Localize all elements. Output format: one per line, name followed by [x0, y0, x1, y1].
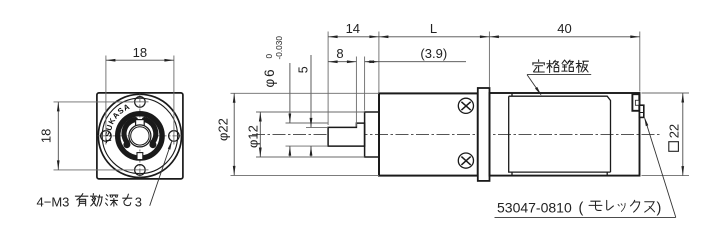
extension line motor flange	[488, 32, 490, 88]
svg-text:0: 0	[264, 54, 274, 59]
dimension phi12	[256, 111, 365, 113]
dimension phi6 with tolerance	[286, 122, 329, 124]
label rating nameplate (teikaku meiban)	[533, 60, 545, 72]
rating nameplate wrap	[509, 93, 611, 175]
M3 mounting hole W	[101, 131, 112, 142]
shaft bore inner circle	[131, 127, 149, 145]
extension line boss face	[364, 57, 366, 111]
phi12 pilot boss	[365, 112, 379, 157]
output shaft with D-cut flat	[328, 123, 365, 146]
gearhead assembly screw (top)	[458, 98, 473, 113]
extension line gearhead face	[378, 32, 380, 93]
gearhead assembly screw (bottom)	[458, 153, 473, 168]
svg-text:8: 8	[336, 46, 343, 61]
gearhead housing body	[379, 93, 478, 175]
extension line motor rear	[639, 32, 641, 92]
svg-text:53047-0810: 53047-0810	[497, 200, 572, 216]
dimension 18 (top, hole spacing)	[105, 56, 107, 134]
motor connector housing	[632, 94, 639, 111]
hub left lower lobe	[124, 142, 130, 148]
dimension L	[379, 36, 490, 38]
M3 mounting hole N	[135, 97, 146, 108]
hub right wing slot	[144, 120, 155, 143]
svg-text:(: (	[579, 201, 584, 217]
front view vertical centerline	[139, 94, 141, 179]
dimension 14	[328, 36, 379, 38]
extension line shaft tip	[327, 32, 329, 126]
svg-text:L: L	[430, 21, 437, 36]
svg-text:φ6: φ6	[262, 67, 277, 87]
connector latch protrusion	[640, 105, 644, 117]
dimension square-22	[642, 92, 690, 94]
front view gearhead inner circle	[102, 98, 177, 173]
M3 mounting hole E	[169, 131, 180, 142]
dimension 8	[328, 61, 356, 63]
svg-text:14: 14	[346, 21, 360, 36]
svg-text:4−M3: 4−M3	[37, 195, 70, 210]
svg-text:3: 3	[135, 195, 142, 210]
connector notch	[635, 100, 639, 105]
dimension phi22	[231, 92, 380, 94]
front view gearhead outer circle	[98, 94, 181, 177]
hub right lower lobe	[150, 142, 156, 148]
shaft bore outer circle	[129, 125, 151, 147]
dimension 40	[489, 36, 639, 38]
motor front flange ring	[478, 88, 490, 181]
extension line D-cut end	[355, 57, 357, 127]
svg-text:22: 22	[666, 124, 681, 138]
dimension 18 (left, hole spacing)	[54, 101, 134, 103]
motor case body	[490, 93, 640, 176]
dimension 5 (D-cut height)	[306, 126, 328, 128]
M3 mounting hole S	[135, 165, 146, 176]
hub top keyway tab	[136, 120, 145, 127]
output hub thick ring	[118, 114, 162, 158]
leader 4-M3 tapped holes	[150, 142, 172, 206]
side view main centerline	[252, 134, 662, 136]
hub bottom notch	[137, 153, 143, 160]
dimension (3.9)	[365, 61, 379, 63]
svg-text:φ22: φ22	[215, 118, 230, 141]
front view horizontal centerline	[98, 135, 183, 137]
svg-text:φ12: φ12	[246, 125, 261, 148]
svg-text:(3.9): (3.9)	[420, 46, 447, 61]
svg-text:18: 18	[39, 129, 54, 143]
svg-text:18: 18	[133, 45, 147, 60]
front view flange square	[97, 93, 183, 179]
svg-text:): )	[657, 201, 662, 217]
svg-text:5: 5	[297, 66, 311, 73]
svg-text:-0.030: -0.030	[274, 36, 284, 60]
hub left wing slot	[124, 120, 135, 143]
svg-text:40: 40	[557, 21, 571, 36]
